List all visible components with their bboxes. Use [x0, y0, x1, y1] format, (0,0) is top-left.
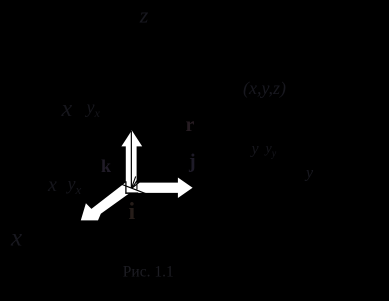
svg-text:k: k	[101, 156, 111, 176]
unit vector k block arrow (up, white)	[121, 130, 142, 192]
svg-text:Рис. 1.1: Рис. 1.1	[123, 264, 174, 281]
origin stroke b	[133, 178, 139, 187]
unit vector j block arrow (right, white)	[126, 178, 193, 199]
node O left edge	[125, 181, 127, 194]
svg-text:j: j	[188, 151, 196, 173]
radius vector r line	[132, 98, 243, 188]
svg-text:x: x	[47, 174, 57, 196]
svg-text:x: x	[61, 96, 73, 122]
svg-text:z: z	[139, 2, 149, 27]
svg-text:i: i	[129, 199, 136, 225]
z axis line	[130, 131, 132, 188]
x axis line	[120, 184, 147, 194]
node O right edge	[136, 182, 138, 189]
origin stroke a	[132, 176, 136, 187]
unit vector i block arrow (down-left, white)	[81, 182, 133, 221]
node O bottom edge	[125, 192, 138, 194]
svg-text:y: y	[250, 141, 260, 158]
svg-text:(x,y,z): (x,y,z)	[243, 78, 286, 99]
svg-text:x: x	[10, 224, 22, 251]
svg-text:y: y	[304, 165, 314, 182]
svg-text:r: r	[186, 114, 195, 136]
